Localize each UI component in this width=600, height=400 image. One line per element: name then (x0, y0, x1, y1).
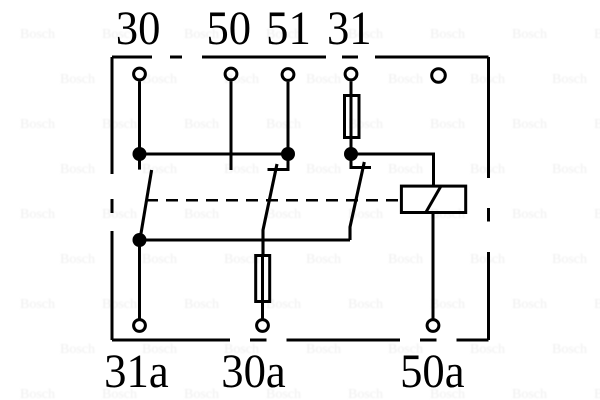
svg-text:Bosch: Bosch (60, 252, 95, 267)
fuse F2 in line 30a (256, 254, 270, 303)
svg-text:Bosch: Bosch (512, 207, 547, 222)
terminal 31a (134, 320, 146, 332)
contact arm S2 (263, 164, 277, 255)
svg-text:Bosch: Bosch (102, 207, 137, 222)
svg-text:Bosch: Bosch (102, 117, 137, 132)
svg-text:Bosch: Bosch (512, 297, 547, 312)
svg-text:Bosch: Bosch (430, 27, 465, 42)
svg-text:Bosch: Bosch (60, 162, 95, 177)
svg-text:Bosch: Bosch (388, 162, 423, 177)
svg-text:30: 30 (116, 3, 161, 56)
svg-text:Bosch: Bosch (266, 117, 301, 132)
svg-text:Bosch: Bosch (470, 342, 505, 357)
fixed contact stub at node C (351, 154, 371, 168)
svg-text:Bosch: Bosch (512, 117, 547, 132)
svg-text:Bosch: Bosch (306, 252, 341, 267)
relay coil K1 (401, 186, 465, 213)
svg-text:Bosch: Bosch (512, 27, 547, 42)
wire relay coil to terminal 50a (432, 214, 435, 319)
unlabeled spare terminal (432, 69, 446, 83)
svg-text:Bosch: Bosch (306, 72, 341, 87)
svg-text:Bosch: Bosch (594, 27, 600, 42)
svg-text:Bosch: Bosch (20, 117, 55, 132)
svg-text:Bosch: Bosch (142, 252, 177, 267)
svg-text:Bosch: Bosch (20, 297, 55, 312)
svg-text:Bosch: Bosch (224, 252, 259, 267)
svg-text:Bosch: Bosch (306, 342, 341, 357)
label 31a (104, 346, 168, 399)
svg-text:Bosch: Bosch (20, 27, 55, 42)
svg-text:Bosch: Bosch (430, 117, 465, 132)
svg-text:Bosch: Bosch (430, 297, 465, 312)
svg-text:30a: 30a (221, 346, 285, 399)
terminal 50a (427, 320, 439, 332)
label 30 (116, 3, 161, 56)
label 31 (327, 3, 372, 56)
mechanical linkage (dashed) (146, 199, 400, 202)
label 50 (206, 3, 251, 56)
svg-text:51: 51 (266, 3, 311, 56)
node B junction dot (281, 147, 295, 161)
terminal 50 (225, 68, 237, 80)
label 50a (400, 346, 464, 399)
svg-text:Bosch: Bosch (102, 297, 137, 312)
svg-text:Bosch: Bosch (594, 207, 600, 222)
svg-text:Bosch: Bosch (224, 162, 259, 177)
svg-text:Bosch: Bosch (388, 252, 423, 267)
node A junction dot (133, 147, 147, 161)
svg-text:31: 31 (327, 3, 372, 56)
wire terminal 31 down (350, 81, 353, 94)
svg-text:Bosch: Bosch (594, 387, 600, 400)
wire fuse F1 to node C (350, 139, 353, 154)
wire node D to terminal 31a (138, 240, 141, 319)
svg-text:Bosch: Bosch (594, 297, 600, 312)
svg-text:Bosch: Bosch (266, 297, 301, 312)
svg-text:Bosch: Bosch (60, 342, 95, 357)
svg-text:Bosch: Bosch (388, 72, 423, 87)
terminal 30a (257, 320, 269, 332)
fixed contact stub at node B (268, 154, 289, 170)
contact arm S1 (140, 170, 152, 240)
svg-text:Bosch: Bosch (20, 207, 55, 222)
svg-text:Bosch: Bosch (348, 387, 383, 400)
wire node C to relay coil (351, 154, 434, 186)
svg-text:Bosch: Bosch (512, 387, 547, 400)
svg-text:Bosch: Bosch (184, 387, 219, 400)
svg-text:Bosch: Bosch (306, 162, 341, 177)
svg-text:Bosch: Bosch (552, 252, 587, 267)
label 51 (266, 3, 311, 56)
svg-text:50: 50 (206, 3, 251, 56)
svg-text:Bosch: Bosch (348, 117, 383, 132)
wire terminal 51 down (287, 82, 290, 154)
relay case outline (dashed box) (112, 57, 489, 340)
svg-text:Bosch: Bosch (60, 72, 95, 87)
svg-text:Bosch: Bosch (552, 342, 587, 357)
wire bus 30-51 (140, 153, 289, 156)
svg-text:50a: 50a (400, 346, 464, 399)
svg-text:Bosch: Bosch (184, 207, 219, 222)
svg-text:Bosch: Bosch (348, 297, 383, 312)
fixed contact stub at node A (138, 154, 141, 170)
svg-text:Bosch: Bosch (184, 297, 219, 312)
label 30a (221, 346, 285, 399)
svg-text:Bosch: Bosch (142, 162, 177, 177)
wire fuse F2 to terminal 30a (261, 302, 264, 319)
contact arm S3 (350, 162, 364, 240)
terminal 31 (345, 68, 357, 80)
wire terminal 50 down (open contact stub) (230, 81, 233, 170)
terminal 51 (282, 69, 294, 81)
wire bottom bus 31a-S3 (140, 239, 351, 242)
svg-text:31a: 31a (104, 346, 168, 399)
node C junction dot (344, 147, 358, 161)
terminal 30 (134, 68, 146, 80)
svg-text:Bosch: Bosch (552, 162, 587, 177)
svg-text:Bosch: Bosch (184, 117, 219, 132)
svg-text:Bosch: Bosch (266, 207, 301, 222)
svg-text:Bosch: Bosch (594, 117, 600, 132)
svg-text:Bosch: Bosch (142, 72, 177, 87)
svg-text:Bosch: Bosch (552, 72, 587, 87)
wire terminal 30 down (138, 81, 141, 154)
svg-text:Bosch: Bosch (20, 387, 55, 400)
node D junction dot (133, 233, 147, 247)
svg-text:Bosch: Bosch (430, 207, 465, 222)
fuse F1 in line 31 (345, 95, 360, 138)
